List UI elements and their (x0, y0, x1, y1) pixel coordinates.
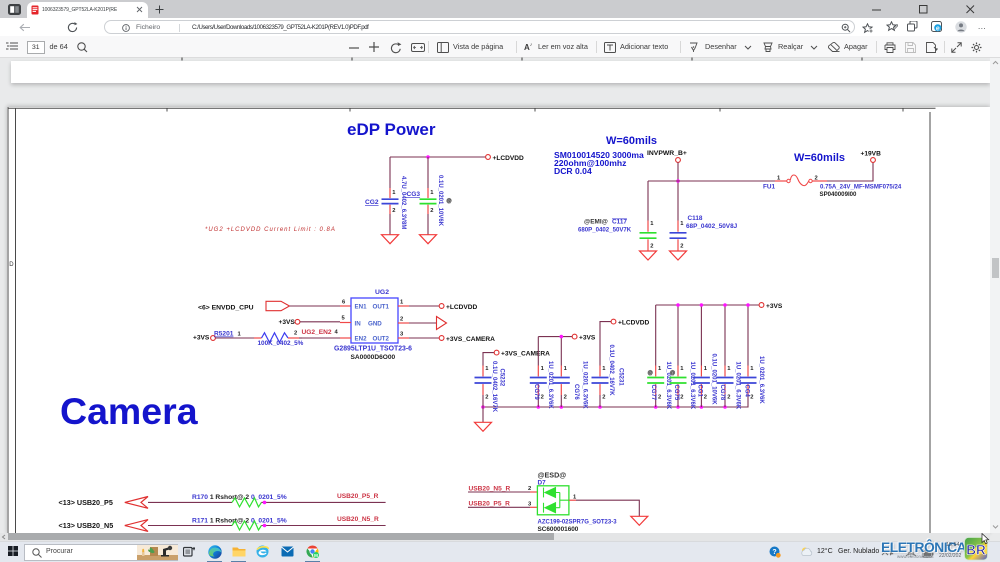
capacitor CG75 1U_0201_6.3V6K (670, 362, 696, 410)
junction CG76 top (560, 335, 564, 339)
ground (CG3) (420, 235, 437, 244)
capacitor CG1 0.1U_0201_10V6K (693, 354, 717, 408)
ground (CG2) (382, 235, 399, 244)
ground (bus) (475, 422, 492, 431)
capacitor CG2 4.7U_0402_6.3V8M (365, 176, 406, 235)
capacitor CG3 0.1U_0201_10V6K (407, 175, 453, 235)
capacitor C118 68P_0402_50V8J (670, 215, 738, 251)
wire down to C117 (647, 181, 649, 221)
wire INVPWR rail to fuse (648, 180, 775, 182)
wire R170 to USB20_P5_R (261, 501, 385, 503)
capacitor CG78 1U_0201_6.3V6K (717, 362, 741, 410)
svg-text:M: M (314, 553, 318, 558)
wire to D7 pin 2 (468, 491, 530, 493)
ground (C118) (670, 251, 687, 260)
resistor R5201 100K_0402_5% (214, 331, 304, 348)
rail junctions (676, 303, 750, 307)
wire to D7 pin 3 (468, 506, 530, 508)
browser title bar (0, 0, 1000, 18)
bus junctions (481, 405, 727, 409)
port arrow USB20_P5 (125, 497, 148, 509)
ground (C117) (640, 251, 657, 260)
ground bus wire (483, 395, 748, 407)
scrollbars (990, 58, 1000, 533)
frame zone ticks top (167, 108, 903, 111)
resistor R170 Rshort 0_0201_5% (192, 494, 287, 507)
capacitor CG77 1U_0201_6.3V6K (647, 362, 671, 410)
net +LCDVDD (C5231) (600, 322, 611, 366)
wire R171 to USB20_N5_R (261, 525, 385, 527)
fuse FU1 (763, 175, 902, 198)
eletronica br watermark (876, 532, 1000, 562)
capacitor CG76 1U_0201_6.3V6K (553, 361, 588, 409)
node junction at CG3 top (426, 155, 430, 159)
ESD diode D7 AZC199-02SPR7G (537, 471, 617, 534)
wire INVPWR_B+ down (677, 162, 679, 220)
+3VS rail (right bank) (656, 304, 759, 306)
net +3VS_CAMERA (C5232) (483, 353, 494, 366)
wire ENVDD_CPU to pin 6 (290, 305, 341, 307)
page 30 bottom frame ticks (182, 58, 862, 61)
wire CG3 vertical (427, 157, 429, 188)
capacitor C5231 0.1U_0402_16V7K (592, 345, 624, 408)
off-page arrow (pin 2) (437, 317, 447, 330)
capacitor CG79 1U_0201_6.3V6K (530, 361, 553, 409)
pdf toolbar (0, 36, 1000, 58)
svg-text:e: e (936, 25, 940, 32)
capacitor C5232 0.1U_0402_16V7K (475, 361, 505, 413)
capacitor CG4 1U_0201_6.3V6K (740, 356, 765, 404)
port arrow USB20_N5 (125, 520, 148, 532)
address bar row (0, 18, 1000, 37)
net +3VS (CG79/CG76 rail) (538, 337, 572, 366)
junction INVPWR rail (676, 179, 680, 183)
wire USB20_N5 to R171 (148, 525, 232, 527)
wire CG2 vertical (389, 157, 391, 188)
wire fuse to +19VB (827, 162, 873, 181)
capacitor C117 680P_0402_50V7K (578, 219, 657, 252)
input port arrow ENVDD_CPU (266, 301, 290, 310)
power port +19VB (871, 158, 876, 163)
junction USB20_P5_R (263, 501, 267, 505)
resistor R171 Rshort 0_0201_5% (192, 517, 287, 530)
schematic sheet frame (8, 107, 936, 533)
wire USB20_P5 to R170 (148, 501, 232, 503)
power port +LCDVDD (top) (486, 155, 491, 160)
junction USB20_N5_R (263, 524, 267, 528)
wire CG2-top to +LCDVDD (390, 156, 486, 158)
rail verticals (656, 305, 748, 366)
wire bus to ground (482, 407, 484, 422)
ground (D7) (631, 516, 648, 525)
op-amp / load switch U-box UG2 (351, 298, 398, 343)
